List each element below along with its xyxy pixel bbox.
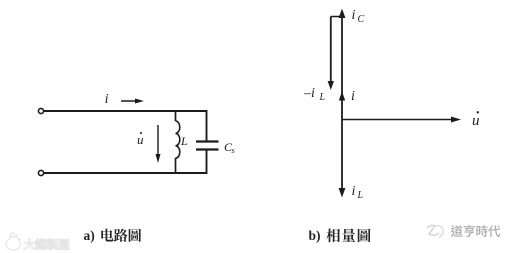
svg-text:a): a): [84, 228, 95, 243]
svg-text:C: C: [358, 14, 365, 25]
phasor u label: [472, 111, 480, 129]
phasor iL: [339, 120, 346, 198]
wire inductor branch top: [175, 111, 177, 121]
svg-text:s: s: [232, 146, 235, 155]
watermark text left: [24, 239, 69, 250]
inductor L: [176, 121, 180, 158]
terminal top-left: [38, 108, 43, 113]
svg-text:L: L: [180, 134, 188, 148]
terminal bottom-left: [38, 170, 43, 175]
voltage label u: [137, 132, 144, 147]
phasor i arrowhead: [339, 92, 345, 101]
watermark logo right: [427, 225, 443, 237]
capacitor Cs: [196, 142, 219, 150]
svg-text:b): b): [309, 228, 321, 243]
phasor -iL label: [303, 86, 326, 103]
watermark logo left: [6, 233, 21, 250]
caption b) phasor diagram: [309, 228, 371, 243]
wire inductor branch bottom: [175, 158, 177, 173]
svg-text:u: u: [137, 132, 144, 147]
watermark text right: [451, 225, 500, 237]
capacitor value label Cs: [224, 140, 235, 155]
phasor u axis: [342, 117, 461, 123]
wire bottom: [44, 172, 207, 174]
phasor iC label: [352, 8, 365, 25]
svg-text:i: i: [352, 184, 356, 199]
current arrow: [121, 99, 144, 104]
phasor -iL: [328, 17, 334, 91]
wire connector top: [331, 16, 342, 18]
svg-text:–i: –i: [303, 86, 315, 101]
phasor iL label: [352, 184, 364, 201]
svg-text:i: i: [351, 89, 355, 104]
svg-text:u: u: [472, 113, 480, 129]
wire capacitor branch bottom: [206, 150, 208, 175]
svg-text:i: i: [105, 92, 109, 107]
phasor iC: [339, 9, 346, 120]
caption a) circuit diagram: [84, 228, 142, 243]
svg-text:L: L: [357, 190, 364, 201]
voltage reference arrow: [156, 125, 161, 163]
svg-text:L: L: [319, 92, 326, 103]
wire top: [44, 110, 207, 112]
wire capacitor branch top: [206, 110, 208, 141]
svg-text:i: i: [352, 8, 356, 23]
